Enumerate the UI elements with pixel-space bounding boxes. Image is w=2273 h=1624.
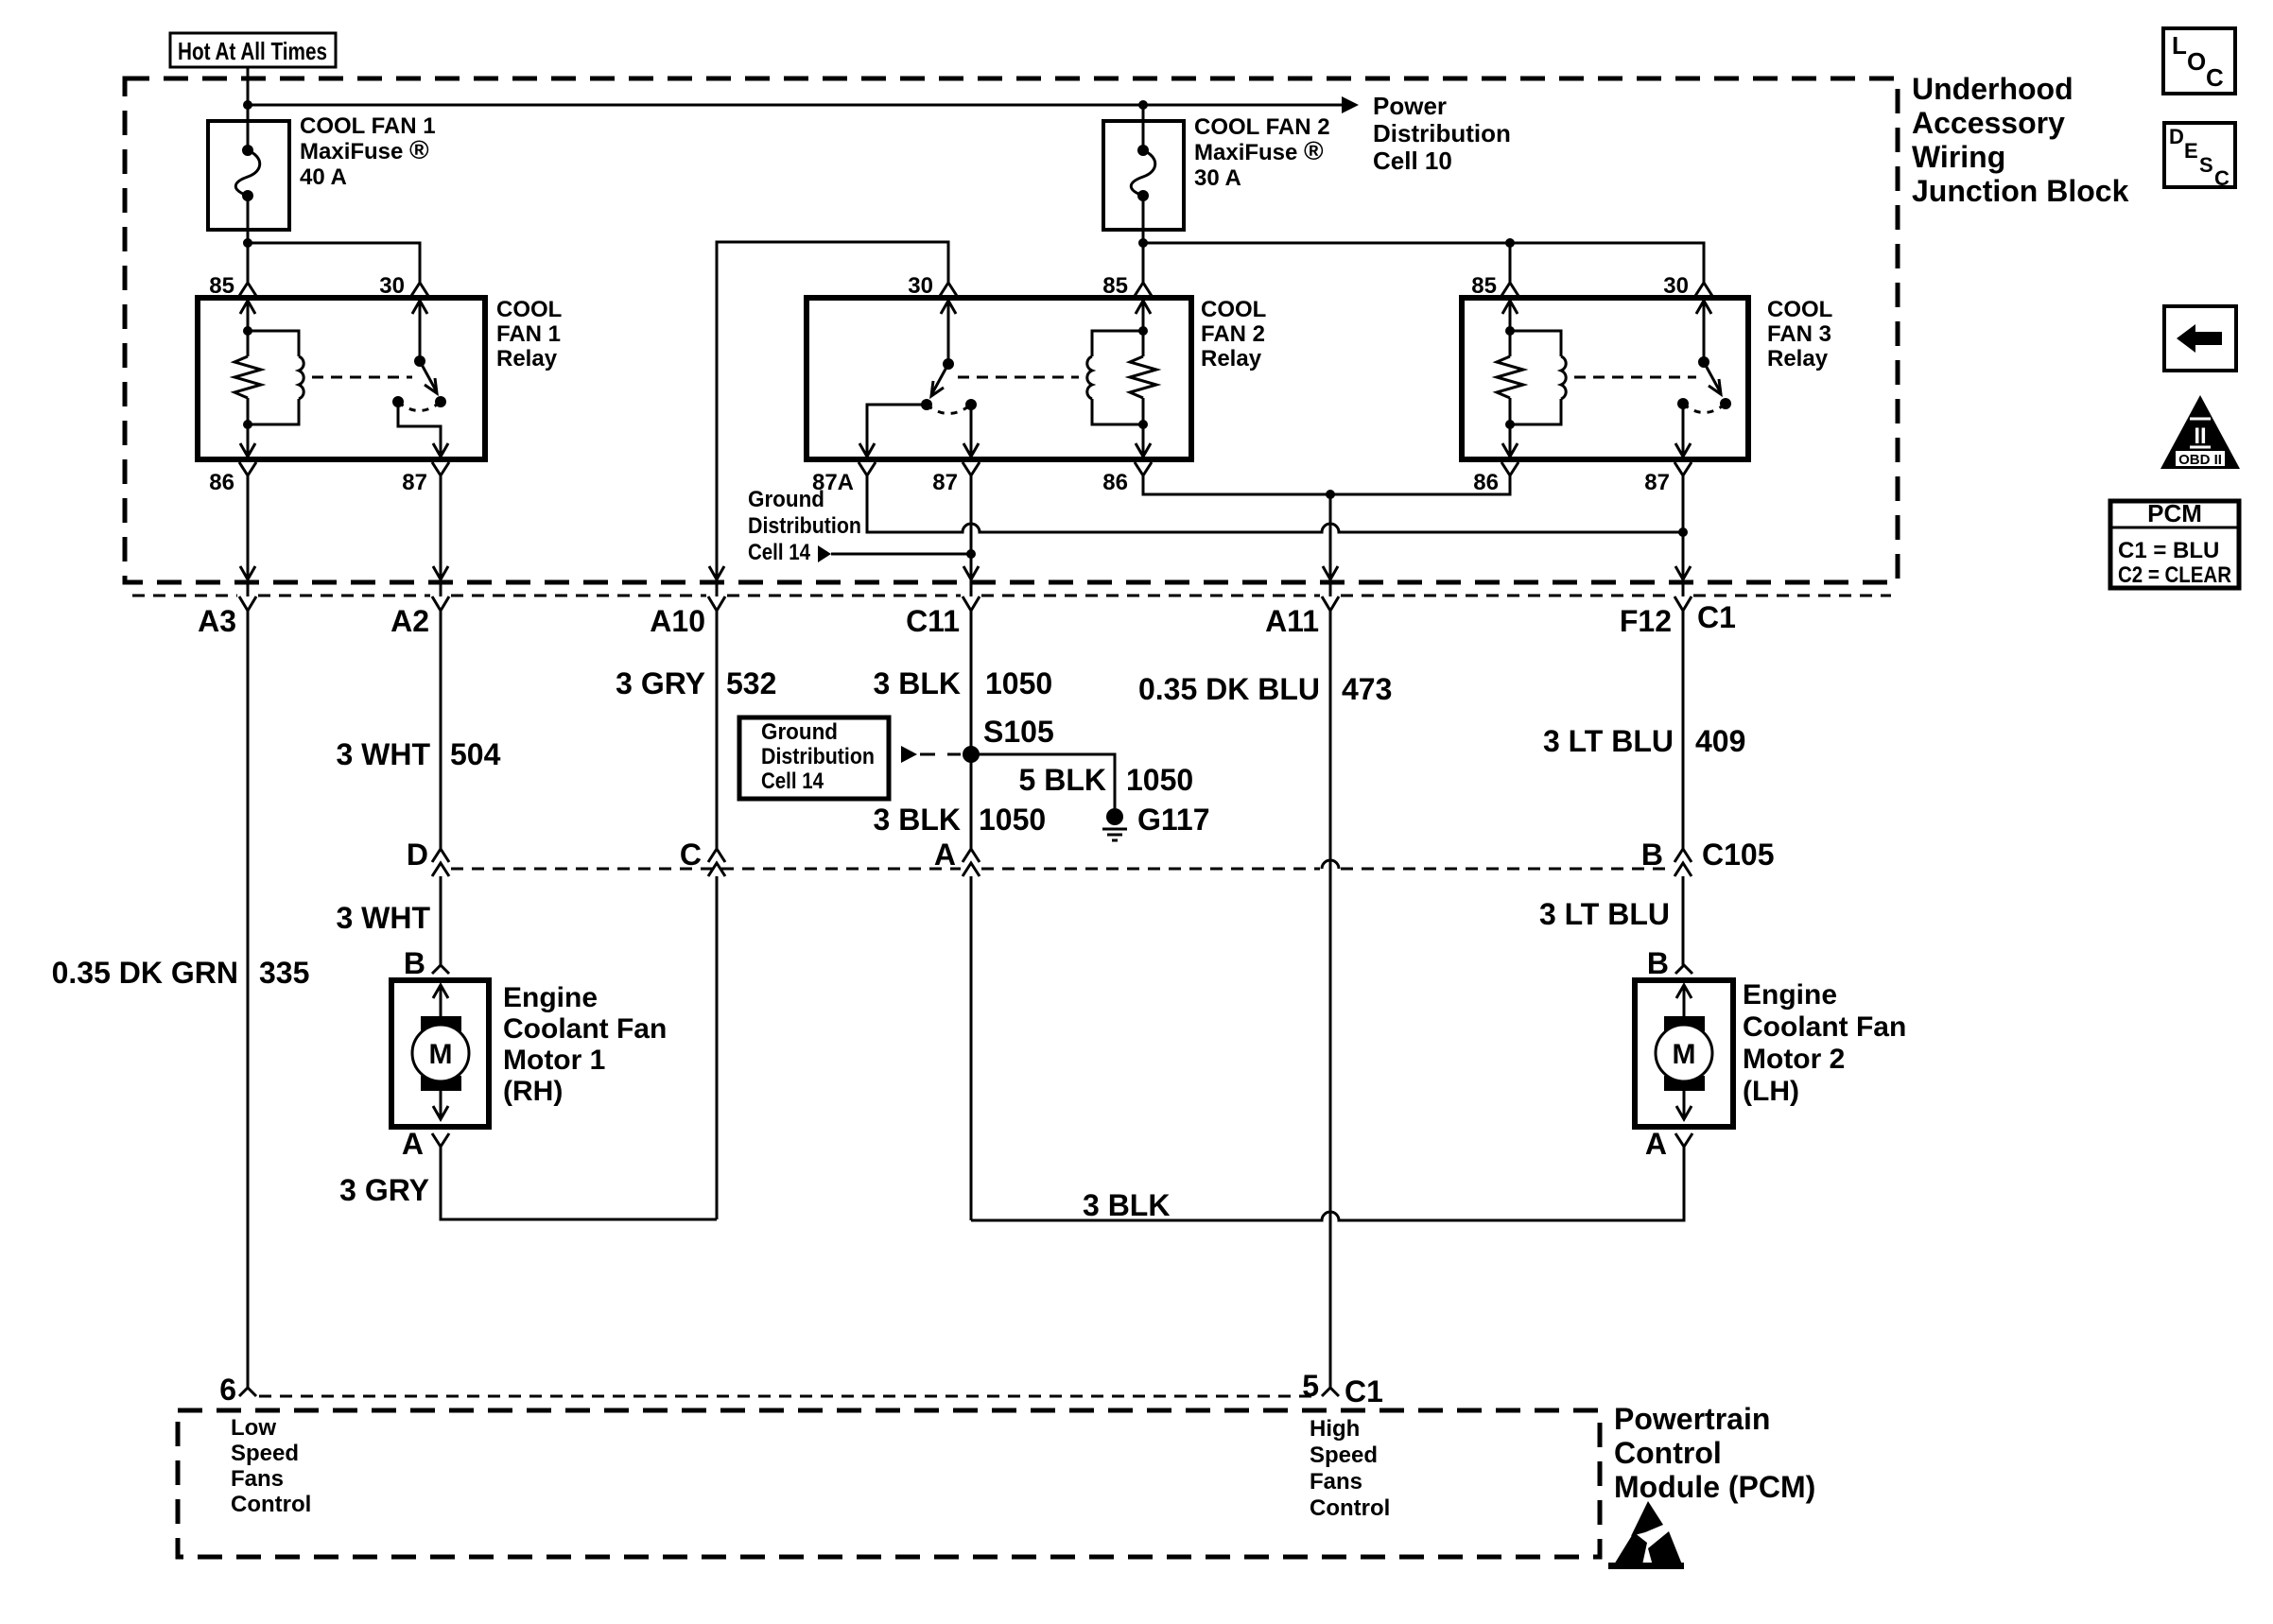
svg-text:30: 30 (379, 273, 405, 299)
svg-text:532: 532 (726, 666, 776, 700)
svg-text:A: A (934, 838, 956, 872)
svg-text:C1: C1 (1697, 600, 1736, 634)
svg-text:30 A: 30 A (1194, 165, 1241, 191)
wire: C105 B to motor 2 pin B (1682, 876, 1685, 965)
arrow: ground distribution cell 14 feed (818, 545, 831, 562)
label: COOL FAN 3 Relay (1767, 297, 1832, 371)
motor M2: Engine Coolant Fan Motor 2 (LH) (1635, 946, 1733, 1161)
svg-text:3 BLK: 3 BLK (1083, 1188, 1170, 1222)
wire: tap down to relay 3 pin 85 (1509, 243, 1512, 283)
PCM module dashed box (178, 1410, 1600, 1557)
svg-text:II: II (2194, 423, 2206, 449)
svg-text:Module (PCM): Module (PCM) (1614, 1470, 1815, 1504)
relay K3 coil branch (1497, 298, 1523, 457)
svg-text:Powertrain: Powertrain (1614, 1402, 1770, 1436)
wire: relay K1 pin 86 down to connector A3 (240, 475, 255, 596)
wire: C11 down to C105 pin A (3 BLK 1050) (970, 611, 973, 849)
label: COOL FAN 1 MaxiFuse 40 A (300, 113, 436, 190)
svg-text:Speed: Speed (1310, 1443, 1378, 1468)
svg-text:C1: C1 (1345, 1374, 1383, 1408)
svg-text:C11: C11 (906, 604, 960, 638)
sidebar LOC icon (2163, 28, 2235, 94)
label: wire 3 WHT 504 (336, 737, 500, 771)
wire: relay K2 pin 87A over to relay K3 pin 87 (867, 475, 1682, 532)
svg-text:1050: 1050 (979, 803, 1046, 837)
label: Powertrain Control Module (PCM) (1614, 1402, 1815, 1504)
svg-text:MaxiFuse ®: MaxiFuse ® (300, 135, 429, 164)
svg-text:Wiring: Wiring (1912, 140, 2005, 174)
wire: A10 down to C105 pin C (3 GRY 532) (716, 611, 719, 849)
svg-text:87: 87 (932, 470, 958, 495)
svg-text:0.35 DK BLU: 0.35 DK BLU (1138, 672, 1320, 706)
svg-text:87: 87 (1644, 470, 1670, 495)
svg-text:C: C (680, 838, 702, 872)
svg-text:3 BLK: 3 BLK (874, 666, 961, 700)
svg-text:O: O (2187, 47, 2206, 76)
svg-text:Junction Block: Junction Block (1912, 174, 2129, 208)
label: Power Distribution Cell 10 (1373, 92, 1511, 175)
motor M1: Engine Coolant Fan Motor 1 (RH) (391, 946, 489, 1161)
svg-text:Cell 14: Cell 14 (748, 540, 811, 565)
svg-text:Distribution: Distribution (761, 744, 875, 769)
svg-text:COOL: COOL (1767, 297, 1832, 322)
wire: Hot At All Times feed down to fuse F1 (247, 67, 250, 121)
pin 87 of relay K3 (1644, 462, 1692, 495)
PCM pin 5 C1 (High Speed Fans Control) (1302, 1369, 1383, 1408)
label: Low Speed Fans Control (231, 1415, 311, 1517)
connector C11 (906, 596, 980, 638)
ground G117 (1102, 803, 1210, 840)
svg-text:85: 85 (1471, 273, 1497, 299)
svg-text:86: 86 (1473, 470, 1499, 495)
svg-text:FAN 3: FAN 3 (1767, 321, 1831, 347)
connector A10 (650, 596, 725, 638)
connector A11 (1265, 596, 1339, 638)
svg-text:335: 335 (259, 956, 309, 990)
pin 86 of relay K3 (1473, 462, 1518, 495)
svg-text:5: 5 (1302, 1369, 1319, 1403)
svg-text:G117: G117 (1137, 803, 1210, 837)
svg-text:C: C (2214, 166, 2230, 190)
label: Hot At All Times box (170, 33, 336, 67)
relay K1: COOL FAN 1 Relay (198, 298, 485, 459)
svg-text:Ground: Ground (748, 487, 824, 512)
svg-text:Control: Control (231, 1492, 311, 1517)
relay K3 switch (1675, 298, 1731, 457)
label: Engine Coolant Fan Motor 2 (LH) (1743, 979, 1906, 1107)
relay K3 coil winding (1510, 331, 1566, 424)
wire: relay K2 pin 87 down to connector C11 (963, 475, 979, 596)
svg-text:C2 = CLEAR: C2 = CLEAR (2118, 562, 2231, 588)
label: wire 3 BLK 1050 (lower) (874, 803, 1047, 837)
wire: relay K3 pin 87 down to connector F12 (1675, 475, 1691, 596)
svg-text:E: E (2184, 139, 2198, 163)
svg-text:Coolant Fan: Coolant Fan (503, 1013, 667, 1045)
svg-text:M: M (429, 1039, 453, 1070)
pin 87 of relay K2 (932, 462, 980, 495)
node: fuse 1 output junction (243, 238, 252, 248)
svg-text:3 GRY: 3 GRY (616, 666, 705, 700)
svg-text:A10: A10 (650, 604, 705, 638)
label: COOL FAN 2 MaxiFuse 30 A (1194, 114, 1330, 191)
svg-text:Control: Control (1614, 1436, 1722, 1470)
pin 87 of relay K1 (402, 462, 449, 495)
wire: power distribution bus (248, 104, 1352, 107)
pin B of C105 (1641, 838, 1775, 876)
junction block dashed border (Underhood Accessory Wiring Junction Block) (125, 78, 1898, 582)
connector F12 of PCM C1 (1620, 596, 1736, 638)
label: Underhood Accessory Wiring Junction Block (1912, 72, 2129, 208)
relay K2 coil branch (1130, 298, 1156, 457)
relay K3: COOL FAN 3 Relay (1462, 298, 1748, 459)
pin 30 of relay K2 (908, 273, 957, 299)
svg-text:Coolant Fan: Coolant Fan (1743, 1011, 1906, 1043)
wire: relay K2 pin 86 and relay K3 pin 86 common (1143, 475, 1510, 494)
svg-text:A: A (1645, 1127, 1667, 1161)
label: wire 3 LT BLU 409 (1543, 724, 1745, 758)
svg-text:D: D (2169, 125, 2184, 148)
pin 85 of relay K2 (1102, 273, 1152, 299)
label: High Speed Fans Control (1310, 1416, 1390, 1521)
svg-text:Fans: Fans (231, 1466, 284, 1492)
label: Ground Distribution Cell 14 box (middle) (739, 717, 889, 799)
svg-text:MaxiFuse ®: MaxiFuse ® (1194, 136, 1324, 165)
fuse F1: COOL FAN 1 MaxiFuse 40 A (208, 121, 289, 283)
pin A of C105 (934, 838, 980, 876)
wire: A11 down to PCM pin 5 (0.35 DK BLU 473) (1329, 611, 1332, 1388)
svg-text:86: 86 (1102, 470, 1128, 495)
svg-text:504: 504 (450, 737, 501, 771)
svg-text:3 WHT: 3 WHT (336, 737, 430, 771)
svg-text:C105: C105 (1702, 838, 1775, 872)
svg-text:30: 30 (1663, 273, 1689, 299)
pin 87A of relay K2 (812, 462, 876, 495)
svg-text:Engine: Engine (1743, 979, 1837, 1011)
svg-text:Motor 1: Motor 1 (503, 1045, 605, 1076)
svg-text:86: 86 (209, 470, 234, 495)
sidebar back arrow icon (2164, 306, 2236, 371)
node: junction 86 line to A11 drop (1326, 490, 1335, 499)
svg-text:30: 30 (908, 273, 933, 299)
relay K3 actuation dashed link (1574, 376, 1696, 379)
wire: C105 D to motor 1 pin B (440, 876, 442, 965)
svg-text:(LH): (LH) (1743, 1076, 1799, 1107)
pin 85 of relay K1 (209, 273, 256, 299)
svg-text:High: High (1310, 1416, 1360, 1442)
svg-text:B: B (1647, 946, 1669, 980)
svg-text:85: 85 (209, 273, 234, 299)
label: COOL FAN 1 Relay (496, 297, 562, 371)
label: wire 3 BLK 1050 (upper) (874, 666, 1053, 700)
svg-text:FAN 1: FAN 1 (496, 321, 561, 347)
connector row: junction block outputs (132, 595, 1891, 597)
svg-text:S105: S105 (983, 715, 1054, 749)
svg-text:Relay: Relay (1767, 346, 1829, 371)
svg-text:S: S (2199, 153, 2213, 177)
svg-text:87: 87 (402, 470, 427, 495)
svg-text:409: 409 (1695, 724, 1745, 758)
relay K2 switch (859, 298, 979, 457)
relay K1 coil branch with arrows (234, 298, 261, 457)
PCM pin 6 (Low Speed Fans Control) (219, 1373, 256, 1407)
label: wire 5 BLK 1050 (1019, 763, 1194, 797)
svg-text:1050: 1050 (985, 666, 1052, 700)
connector A3 (198, 596, 256, 638)
node: bus tap at fuse 2 (1138, 100, 1148, 110)
node: fuse 2 output junction (1138, 238, 1148, 248)
ESD sensitive device symbol (1608, 1501, 1684, 1569)
wire: relay 2 pin 30 jumper to A10 drop (717, 242, 948, 596)
svg-text:5 BLK: 5 BLK (1019, 763, 1106, 797)
node: bus tap at fuse 1 (243, 100, 252, 110)
svg-text:Speed: Speed (231, 1441, 299, 1466)
svg-text:Underhood: Underhood (1912, 72, 2073, 106)
svg-text:6: 6 (219, 1373, 236, 1407)
connector A2 (390, 596, 449, 638)
svg-text:Cell 14: Cell 14 (761, 769, 824, 794)
svg-text:1050: 1050 (1126, 763, 1193, 797)
svg-text:B: B (404, 946, 425, 980)
svg-text:M: M (1673, 1039, 1696, 1070)
label: wire 0.35 DK GRN 335 (52, 956, 310, 990)
svg-text:Relay: Relay (1201, 346, 1262, 371)
svg-text:Engine: Engine (503, 982, 598, 1013)
node: junction 87A line with relay 3 pin 87 wire (1678, 527, 1688, 537)
wire: S105 to ground G117 (5 BLK 1050) (971, 754, 1115, 808)
wire: relay K1 pin 87 down to connector A2 (433, 475, 448, 596)
node: splice S105 (963, 715, 1054, 763)
pin C of C105 (680, 838, 725, 876)
svg-text:Power: Power (1373, 92, 1447, 120)
relay K1 switch (392, 298, 448, 457)
node: junction ground line with C11 wire (966, 549, 976, 559)
wire: C105 A down to motor 2 return (970, 876, 973, 1220)
svg-text:D: D (407, 838, 428, 872)
svg-text:3 WHT: 3 WHT (336, 901, 430, 935)
pin 85 of relay K3 (1471, 273, 1518, 299)
connector C105 row (451, 860, 1673, 869)
svg-text:OBD II: OBD II (2178, 452, 2222, 468)
pin D of C105 (407, 838, 449, 876)
pin 86 of relay K1 (209, 462, 256, 495)
svg-text:A3: A3 (198, 604, 236, 638)
svg-text:COOL: COOL (496, 297, 562, 322)
svg-text:40 A: 40 A (300, 164, 347, 190)
pin 30 of relay K1 (379, 273, 428, 299)
wire: F12 down to C105 pin B (3 LT BLU 409) (1682, 611, 1685, 849)
label: Ground Distribution Cell 14 (upper) (748, 487, 861, 565)
svg-text:Relay: Relay (496, 346, 558, 371)
label: wire 0.35 DK BLU 473 (1138, 672, 1392, 706)
svg-text:3 BLK: 3 BLK (874, 803, 961, 837)
wire: fuse 2 output to relay 3 (1143, 243, 1704, 283)
wire: motor 1 pin A return to C105 C wire (3 GRY) (441, 1147, 717, 1219)
relay K1 coil winding (248, 331, 304, 424)
svg-text:Hot At All Times: Hot At All Times (178, 37, 327, 65)
arrow: ground distribution feed to S105 (901, 746, 917, 763)
svg-text:F12: F12 (1620, 604, 1672, 638)
arrow to Power Distribution Cell 10 (1342, 96, 1359, 113)
svg-text:Ground: Ground (761, 719, 838, 745)
node: tap to relay 3 pin 85 (1505, 238, 1515, 248)
relay K2 coil winding (1087, 331, 1143, 424)
wire: motor 2 pin A return to C105 A wire (3 BLK) with hop over A11 (971, 1147, 1684, 1220)
wire: A11 drop from 86 junction (1323, 494, 1338, 596)
svg-text:85: 85 (1102, 273, 1128, 299)
wire: A2 down to C105 pin D (3 WHT 504) (440, 611, 442, 849)
relay K1 actuation dashed link (312, 376, 412, 379)
svg-text:A: A (402, 1127, 424, 1161)
sidebar PCM connector legend (2110, 499, 2239, 588)
svg-text:Distribution: Distribution (748, 513, 861, 539)
sidebar OBD II icon (2160, 395, 2240, 469)
label: wire 3 GRY 532 (616, 666, 776, 700)
svg-text:A11: A11 (1265, 604, 1319, 638)
fuse F2: COOL FAN 2 MaxiFuse 30 A (1103, 105, 1184, 283)
wire: ground distribution line to C11 wire (831, 553, 971, 556)
svg-text:PCM: PCM (2147, 499, 2202, 527)
svg-text:COOL: COOL (1201, 297, 1266, 322)
wire: dashed lead to S105 (920, 753, 961, 756)
pin 86 of relay K2 (1102, 462, 1152, 495)
pin 30 of relay K3 (1663, 273, 1712, 299)
wire: jumper from fuse 1 to relay 1 pin 30 (248, 243, 420, 283)
svg-text:Accessory: Accessory (1912, 106, 2065, 140)
svg-text:3 LT BLU: 3 LT BLU (1539, 897, 1670, 931)
wire: A3 to PCM pin 6 (0.35 DK GRN 335) (247, 611, 250, 1388)
label: COOL FAN 2 Relay (1201, 297, 1266, 371)
svg-text:Distribution: Distribution (1373, 119, 1511, 147)
svg-text:B: B (1641, 838, 1663, 872)
svg-text:L: L (2172, 31, 2187, 60)
svg-text:(RH): (RH) (503, 1076, 563, 1107)
svg-text:Motor 2: Motor 2 (1743, 1044, 1845, 1075)
relay K2: COOL FAN 2 Relay (807, 298, 1191, 459)
svg-text:0.35 DK GRN: 0.35 DK GRN (52, 956, 238, 990)
svg-text:3 LT BLU: 3 LT BLU (1543, 724, 1674, 758)
relay K2 actuation dashed link (958, 376, 1079, 379)
svg-text:473: 473 (1342, 672, 1392, 706)
wire: C105 C down to motor 1 return (716, 876, 719, 1219)
svg-text:Control: Control (1310, 1495, 1390, 1521)
label: Engine Coolant Fan Motor 1 (RH) (503, 982, 667, 1107)
PCM connector dashed row (259, 1395, 1320, 1398)
svg-text:C1 = BLU: C1 = BLU (2118, 538, 2219, 563)
svg-text:FAN 2: FAN 2 (1201, 321, 1265, 347)
svg-text:A2: A2 (390, 604, 429, 638)
svg-text:C: C (2206, 63, 2224, 92)
sidebar DESC icon (2164, 123, 2235, 190)
svg-text:Cell 10: Cell 10 (1373, 147, 1452, 175)
svg-text:3 GRY: 3 GRY (339, 1173, 429, 1207)
svg-text:Fans: Fans (1310, 1469, 1362, 1494)
svg-text:Low: Low (231, 1415, 276, 1441)
